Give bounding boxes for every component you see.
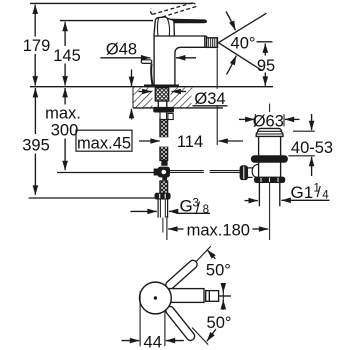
svg-text:Ø63: Ø63 bbox=[253, 112, 284, 130]
svg-text:max.45: max.45 bbox=[77, 135, 131, 153]
svg-text:50°: 50° bbox=[207, 314, 232, 332]
svg-text:145: 145 bbox=[53, 47, 81, 65]
svg-text:G: G bbox=[180, 197, 193, 216]
svg-text:Ø48: Ø48 bbox=[106, 40, 137, 58]
svg-text:40°: 40° bbox=[231, 35, 256, 53]
svg-text:114: 114 bbox=[177, 133, 203, 151]
svg-text:4: 4 bbox=[322, 190, 329, 202]
svg-text:max.180: max.180 bbox=[187, 221, 250, 239]
svg-text:8: 8 bbox=[203, 204, 209, 216]
svg-text:50°: 50° bbox=[206, 261, 231, 279]
svg-text:95: 95 bbox=[257, 57, 275, 75]
svg-text:G1: G1 bbox=[291, 183, 314, 202]
svg-text:300: 300 bbox=[51, 122, 79, 140]
svg-text:179: 179 bbox=[23, 37, 51, 55]
svg-text:395: 395 bbox=[22, 137, 50, 155]
svg-text:40-53: 40-53 bbox=[291, 139, 333, 157]
svg-text:44: 44 bbox=[144, 333, 162, 350]
svg-text:Ø34: Ø34 bbox=[194, 90, 225, 108]
svg-text:max.: max. bbox=[45, 104, 81, 122]
